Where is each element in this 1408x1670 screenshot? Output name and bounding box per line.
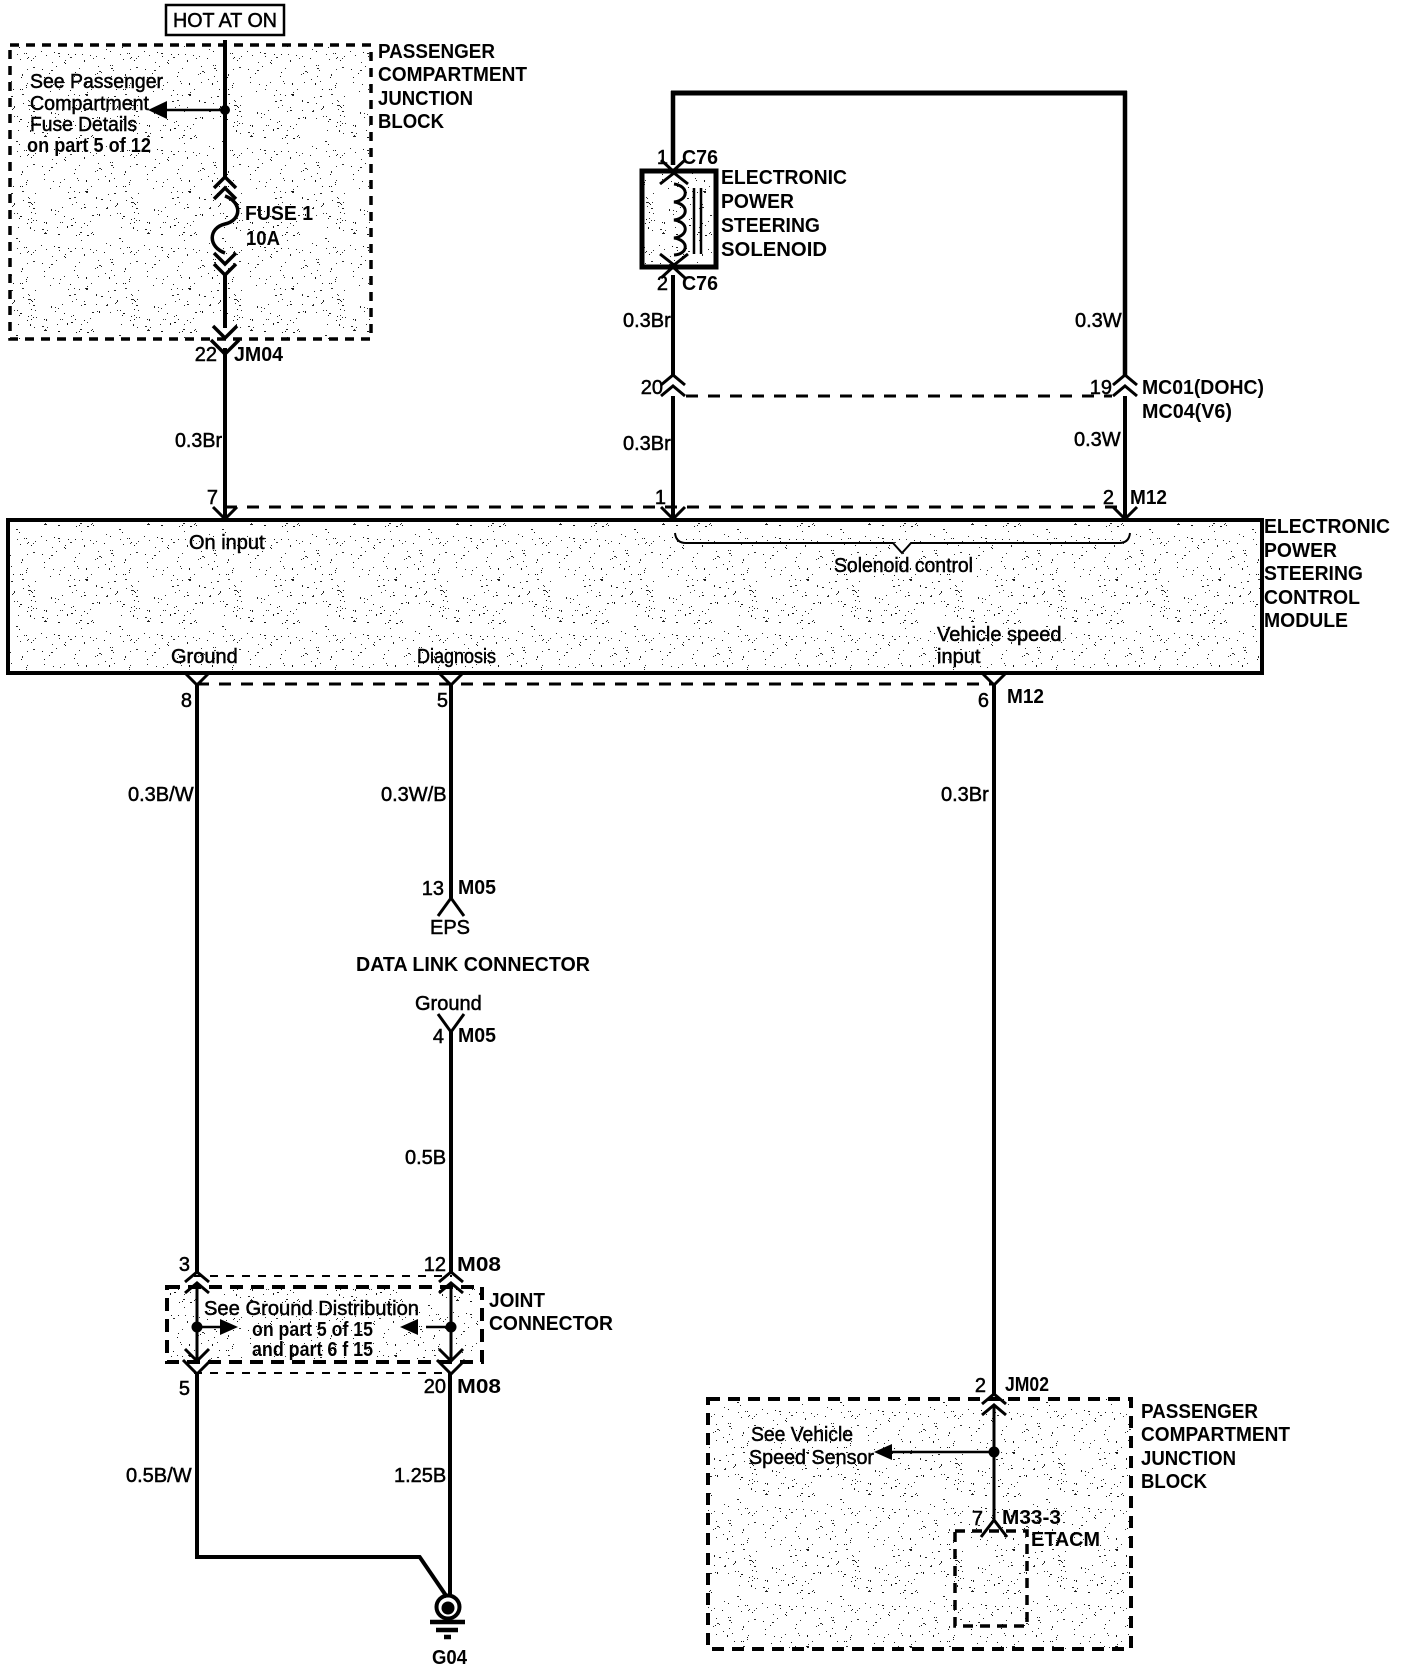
- svg-text:1.25B: 1.25B: [394, 1465, 446, 1487]
- arrow to speed sensor with node dot: [874, 1444, 1000, 1460]
- junction block box (passenger compartment, bottom-right): [708, 1399, 1131, 1649]
- module pin 2, M12: [1103, 487, 1167, 519]
- note see passenger compartment fuse details: [27, 71, 163, 157]
- svg-text:on part 5 of 12: on part 5 of 12: [27, 135, 151, 157]
- svg-text:0.3Br: 0.3Br: [623, 433, 671, 455]
- svg-text:5: 5: [437, 690, 448, 712]
- svg-text:0.3Br: 0.3Br: [623, 310, 671, 332]
- svg-text:22: 22: [195, 344, 217, 366]
- svg-text:POWER: POWER: [721, 191, 795, 213]
- svg-text:0.3W: 0.3W: [1074, 429, 1121, 451]
- label On input: [189, 532, 265, 554]
- label HOT AT ON: [166, 5, 284, 35]
- junction block box (passenger compartment, top-left): [10, 45, 371, 339]
- svg-text:M05: M05: [458, 877, 496, 899]
- svg-text:MC01(DOHC): MC01(DOHC): [1142, 377, 1264, 399]
- wire 0.3Br to module pin 1: [623, 396, 673, 517]
- svg-text:Compartment: Compartment: [30, 93, 149, 115]
- wire from HOT AT ON to fuse: [223, 40, 227, 178]
- connector C76 pin 2: [657, 267, 718, 295]
- svg-text:M08: M08: [457, 1254, 501, 1276]
- svg-text:COMPARTMENT: COMPARTMENT: [378, 64, 527, 86]
- svg-text:12: 12: [424, 1254, 446, 1276]
- svg-text:MODULE: MODULE: [1264, 610, 1348, 632]
- svg-text:Ground: Ground: [415, 993, 482, 1015]
- svg-text:5: 5: [179, 1378, 190, 1400]
- wire dashed M12 row bottom: [197, 683, 994, 686]
- connector MC pin 19, MC01(DOHC) MC04(V6): [1090, 375, 1264, 423]
- svg-text:HOT AT ON: HOT AT ON: [173, 10, 277, 32]
- note see vehicle speed sensor: [749, 1424, 874, 1469]
- svg-text:0.3B/W: 0.3B/W: [128, 784, 194, 806]
- svg-text:10A: 10A: [246, 228, 280, 250]
- svg-text:POWER: POWER: [1264, 540, 1338, 562]
- svg-text:M08: M08: [457, 1376, 501, 1398]
- svg-text:CONTROL: CONTROL: [1264, 587, 1360, 609]
- svg-text:input: input: [937, 646, 981, 668]
- svg-text:COMPARTMENT: COMPARTMENT: [1141, 1424, 1290, 1446]
- label EPS DATA LINK CONNECTOR Ground: [356, 917, 591, 1015]
- wire 0.3Br solenoid to MC01: [623, 275, 673, 377]
- solenoid L1 electronic power steering solenoid: [642, 171, 716, 267]
- svg-text:and part 6 f 15: and part 6 f 15: [252, 1339, 373, 1361]
- svg-text:0.3Br: 0.3Br: [175, 430, 222, 452]
- wire diagnosis 0.3W/B pin5 to DLC pin13: [381, 684, 451, 898]
- label ELECTRONIC POWER STEERING SOLENOID: [721, 167, 847, 261]
- svg-text:M12: M12: [1130, 487, 1167, 509]
- connector M05 pin 13: [422, 877, 496, 916]
- svg-text:C76: C76: [682, 147, 718, 169]
- svg-text:6: 6: [978, 690, 989, 712]
- ETACM box: [955, 1529, 1100, 1626]
- svg-text:BLOCK: BLOCK: [1141, 1471, 1208, 1493]
- svg-text:JOINT: JOINT: [489, 1290, 545, 1312]
- svg-text:MC04(V6): MC04(V6): [1142, 401, 1232, 423]
- svg-text:PASSENGER: PASSENGER: [378, 41, 496, 63]
- svg-text:STEERING: STEERING: [1264, 563, 1363, 585]
- label PASSENGER COMPARTMENT JUNCTION BLOCK (bottom): [1141, 1401, 1290, 1493]
- wire JM04 to module pin 7, 0.3Br: [175, 348, 225, 517]
- label JOINT CONNECTOR: [489, 1290, 614, 1335]
- svg-text:BLOCK: BLOCK: [378, 111, 445, 133]
- svg-text:8: 8: [181, 690, 192, 712]
- module pin 5: [437, 673, 463, 712]
- wire fuse to JM04: [223, 275, 227, 328]
- arrow to fuse details: [148, 101, 167, 119]
- wire 1.25B to ground: [394, 1372, 450, 1596]
- wire solenoid top feed: [671, 91, 1127, 377]
- label PASSENGER COMPARTMENT JUNCTION BLOCK (top): [378, 41, 527, 133]
- svg-text:Speed Sensor: Speed Sensor: [749, 1447, 874, 1469]
- wire ground 0.3B/W pin8 to joint connector pin 3: [128, 684, 197, 1274]
- connector M08 pin 20: [424, 1349, 501, 1398]
- wire joint internal left: [196, 1283, 199, 1360]
- connector MC pin 20: [641, 375, 685, 399]
- connector pin 5 (joint bottom left): [179, 1349, 211, 1400]
- svg-text:1: 1: [655, 487, 666, 509]
- node joint right dot with arrow: [400, 1319, 457, 1335]
- svg-text:Fuse Details: Fuse Details: [30, 114, 137, 136]
- svg-text:ETACM: ETACM: [1031, 1529, 1100, 1551]
- label ELECTRONIC POWER STEERING CONTROL MODULE: [1264, 516, 1390, 632]
- svg-text:0.5B/W: 0.5B/W: [126, 1465, 192, 1487]
- ground G04: [430, 1596, 468, 1670]
- label Ground / Diagnosis / Vehicle speed input: [171, 624, 1062, 668]
- svg-text:Solenoid control: Solenoid control: [834, 555, 973, 577]
- svg-text:JM04: JM04: [234, 344, 284, 366]
- module pin 8: [181, 673, 209, 712]
- node joint left dot with arrow: [192, 1319, 239, 1335]
- svg-text:JUNCTION: JUNCTION: [1141, 1448, 1236, 1470]
- wire 0.3W to module pin 2: [1074, 396, 1125, 517]
- module pin 7: [207, 487, 237, 519]
- connector M08 pin 12: [424, 1254, 501, 1293]
- svg-text:Vehicle speed: Vehicle speed: [937, 624, 1062, 646]
- svg-text:0.3W: 0.3W: [1075, 310, 1122, 332]
- svg-text:2: 2: [657, 273, 668, 295]
- svg-text:ELECTRONIC: ELECTRONIC: [721, 167, 847, 189]
- svg-text:on part 5 of 15: on part 5 of 15: [252, 1319, 373, 1341]
- svg-text:2: 2: [1103, 487, 1114, 509]
- svg-text:Diagnosis: Diagnosis: [417, 646, 496, 668]
- svg-text:EPS: EPS: [430, 917, 470, 939]
- label FUSE 1 10A: [245, 203, 313, 250]
- svg-text:4: 4: [433, 1026, 444, 1048]
- svg-text:2: 2: [975, 1375, 986, 1397]
- svg-text:FUSE 1: FUSE 1: [245, 203, 313, 225]
- wire 0.5B M05 to M08 pin 12: [405, 1030, 451, 1274]
- module pin 6, M12: [978, 673, 1044, 712]
- module pin 1: [655, 487, 685, 519]
- connector M05 pin 4: [433, 1014, 496, 1048]
- svg-text:CONNECTOR: CONNECTOR: [489, 1313, 614, 1335]
- wire dashed MC row: [686, 395, 1112, 398]
- svg-text:See Vehicle: See Vehicle: [751, 1424, 853, 1446]
- connector pin 3 (joint): [179, 1254, 209, 1293]
- wire JM02 to M33-3: [993, 1405, 996, 1520]
- svg-text:JM02: JM02: [1005, 1374, 1049, 1396]
- svg-text:19: 19: [1090, 377, 1112, 399]
- node junction dot: [220, 105, 230, 115]
- connector M33-3 pin 7: [972, 1507, 1061, 1537]
- wire 0.5B/W to ground: [126, 1372, 447, 1597]
- svg-text:C76: C76: [682, 273, 718, 295]
- svg-text:20: 20: [641, 377, 663, 399]
- svg-text:PASSENGER: PASSENGER: [1141, 1401, 1259, 1423]
- note see ground distribution: [204, 1298, 419, 1361]
- svg-text:0.5B: 0.5B: [405, 1147, 446, 1169]
- svg-text:Ground: Ground: [171, 646, 238, 668]
- label 0.3W right upper: [1075, 310, 1122, 332]
- wire joint internal right: [450, 1283, 453, 1360]
- joint connector box: [167, 1276, 482, 1373]
- fuse F1 symbol: [212, 177, 238, 275]
- svg-text:M12: M12: [1007, 686, 1044, 708]
- svg-text:0.3W/B: 0.3W/B: [381, 784, 447, 806]
- svg-text:7: 7: [207, 487, 218, 509]
- svg-text:G04: G04: [432, 1647, 468, 1669]
- svg-text:On input: On input: [189, 532, 265, 554]
- svg-text:7: 7: [972, 1508, 983, 1530]
- svg-text:M33-3: M33-3: [1002, 1507, 1061, 1529]
- svg-text:SOLENOID: SOLENOID: [721, 239, 827, 261]
- svg-text:JUNCTION: JUNCTION: [378, 88, 473, 110]
- connector JM04 pin 22: [195, 326, 284, 366]
- svg-text:ELECTRONIC: ELECTRONIC: [1264, 516, 1390, 538]
- svg-text:See Passenger: See Passenger: [30, 71, 163, 93]
- svg-text:3: 3: [179, 1254, 190, 1276]
- wire speed 0.3Br pin6 to JM02: [941, 684, 994, 1395]
- svg-text:STEERING: STEERING: [721, 215, 820, 237]
- wire dashed M12 row top: [225, 506, 1125, 509]
- svg-text:M05: M05: [458, 1025, 496, 1047]
- EPS control module U1: [8, 520, 1262, 673]
- svg-text:13: 13: [422, 878, 444, 900]
- connector C76 pin 1: [657, 147, 718, 171]
- connector JM02 pin 2: [975, 1374, 1049, 1415]
- svg-text:See Ground Distribution: See Ground Distribution: [204, 1298, 419, 1320]
- svg-text:20: 20: [424, 1376, 446, 1398]
- wire to fuse-details arrow: [163, 109, 225, 112]
- svg-text:DATA LINK CONNECTOR: DATA LINK CONNECTOR: [356, 954, 591, 976]
- svg-text:0.3Br: 0.3Br: [941, 784, 989, 806]
- brace solenoid control: [675, 533, 1130, 577]
